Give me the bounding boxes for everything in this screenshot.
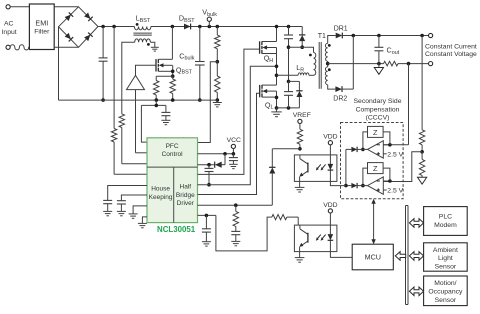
resistor VREF pullup [299, 124, 301, 130]
svg-text:AC: AC [4, 21, 14, 28]
resistor opto2 collector [272, 215, 287, 220]
bridge diode D3 (left-bottom edge) [64, 33, 73, 42]
wire opto2 cathode to MCU [330, 252, 352, 258]
wire QH gate drive [198, 49, 260, 174]
diode op-amp output [346, 185, 352, 187]
Motion Occupancy Sensor box [424, 276, 468, 306]
wire amp input from PFC control [135, 90, 137, 153]
wire QL gate drive [198, 93, 260, 194]
LBST core lines [133, 32, 151, 34]
arrow bus to motion sensor [409, 287, 423, 296]
opto light arrows [317, 164, 321, 168]
svg-text:Occupancy: Occupancy [428, 289, 463, 296]
optocoupler box [294, 155, 337, 182]
opto phototransistor [299, 155, 301, 159]
svg-text:2.5 V: 2.5 V [387, 188, 403, 195]
wire QH drain to bus [276, 27, 278, 42]
svg-text:EMI: EMI [35, 19, 48, 28]
Z feedback box [368, 126, 384, 137]
wire dim row routing [216, 215, 272, 251]
op-amp triangle [368, 141, 384, 158]
LBST phase dot primary [136, 23, 139, 26]
VCC terminal [231, 144, 235, 148]
svg-text:Secondary Side: Secondary Side [354, 98, 402, 105]
wire AC top to EMI [10, 6, 29, 8]
wire DR2 to positive rail [352, 36, 354, 90]
ground VCC [229, 163, 238, 165]
ground opto1 emitter [299, 181, 301, 187]
resistor Vbulk divider lower [216, 62, 218, 76]
capacitor row A filter [165, 105, 167, 112]
svg-text:VDD: VDD [323, 202, 337, 209]
svg-text:House: House [151, 186, 170, 193]
AC input terminal bottom [6, 45, 10, 49]
svg-text:2.5 V: 2.5 V [387, 151, 403, 158]
svg-text:DR1: DR1 [334, 26, 348, 33]
wire divider tap to voltage amp [383, 152, 422, 182]
resistor sense divider upper [111, 129, 116, 143]
inductor LR [277, 74, 299, 76]
T1 primary phase dot [309, 54, 312, 57]
ground pin H [138, 222, 147, 224]
capacitor resonant upper [287, 25, 291, 29]
T1 secondary phase dot lower [328, 68, 331, 71]
wire return rail [59, 99, 218, 101]
wire bridge pin to switch node [198, 66, 277, 184]
MCU box [352, 244, 393, 270]
ground opto2 emitter [299, 252, 301, 258]
wire divider tap to PFC Vbulk sense pin [198, 62, 218, 143]
svg-text:Z: Z [373, 164, 378, 173]
bridge diode D2 (top-right edge) [84, 12, 93, 21]
resistor QBST source right [172, 76, 174, 79]
capacitor pin E [103, 199, 112, 201]
wire rail tap to row A [155, 100, 157, 105]
optocoupler box [294, 225, 337, 252]
wire EMI to bridge top [54, 6, 78, 8]
diode DR1 [328, 36, 336, 44]
op-amp triangle [368, 177, 384, 194]
node output divider tap [420, 150, 424, 154]
T1 secondary winding upper [325, 43, 327, 61]
svg-text:MCU: MCU [365, 253, 381, 262]
diode op-amp output [346, 148, 352, 150]
resistor aux sense [119, 114, 124, 128]
wire DC bus middle segment [151, 26, 302, 28]
wire PFC pin row A [141, 105, 147, 142]
ground dim filter [202, 241, 211, 243]
svg-text:Sensor: Sensor [435, 263, 457, 270]
svg-text:Driver: Driver [177, 200, 195, 207]
inductor LBST primary winding [134, 27, 150, 30]
bridge diode D4 (bottom-right edge) [84, 33, 93, 42]
wire DC bus left segment [98, 26, 134, 28]
diode FB [271, 149, 273, 168]
Vbulk terminal [208, 25, 212, 29]
Ambient Light Sensor box [424, 243, 468, 271]
wire CCCV to MCU arrow [373, 202, 375, 241]
op-amp minus input stub [383, 180, 390, 182]
ground row A [161, 119, 170, 121]
AC input terminal top [6, 5, 10, 9]
transformer T1 core [318, 42, 320, 89]
ground half bridge [276, 108, 278, 112]
op-amp plus input stub [383, 189, 386, 191]
wire EMI to bridge bottom [54, 46, 78, 48]
PLC Modem box [424, 207, 468, 236]
output terminal positive [429, 33, 433, 37]
op-amp minus input stub [383, 144, 390, 146]
svg-text:Motion/: Motion/ [434, 280, 456, 287]
Z feedback box [368, 163, 384, 174]
svg-text:Z: Z [373, 128, 378, 137]
wire dim-control row [198, 214, 216, 216]
wire bottom clamp rail [277, 107, 300, 109]
wire aux winding left to PFC [122, 42, 135, 114]
opto LED [329, 155, 331, 164]
svg-text:Constant Voltage: Constant Voltage [425, 51, 477, 58]
wire cap node to T1 primary top [289, 47, 314, 52]
EMI Filter box [29, 4, 54, 50]
capacitor pin F [117, 200, 126, 202]
svg-text:VCC: VCC [227, 137, 241, 144]
svg-text:Control: Control [162, 151, 184, 158]
node Vbulk divider tap [216, 60, 220, 64]
arrow MCU to bus [395, 252, 405, 261]
IC NCL30051 outline [147, 138, 198, 223]
node FB compensation [234, 203, 238, 207]
wire pin housekeeping E [108, 186, 147, 201]
ground rail end [213, 102, 222, 104]
wire Z to output [363, 132, 368, 150]
svg-text:PFC: PFC [166, 143, 179, 150]
wire aux winding right to ground [150, 42, 154, 47]
resistor current shunt [384, 61, 398, 66]
wire QBST drain to bus [171, 27, 173, 60]
resistor output divider lower [421, 152, 423, 160]
ground output divider (signal) [418, 177, 427, 184]
transistor QBST [155, 59, 157, 71]
IC internal divider horizontal [147, 166, 198, 168]
bridge diode D1 (left-top edge) [64, 12, 73, 21]
capacitor FB compensation [231, 230, 240, 232]
resistor QBST source left [155, 76, 157, 80]
diode clamp upper [301, 27, 303, 35]
wire Z to minus input [383, 168, 390, 181]
opto light arrows [317, 235, 321, 239]
transistor QL [259, 85, 261, 97]
svg-text:(CCCV): (CCCV) [366, 115, 390, 122]
VDD terminal opto2 [328, 209, 332, 213]
svg-text:Ambient: Ambient [433, 247, 458, 254]
wire bus sense to PFC pin [112, 25, 116, 29]
ground pin G [129, 213, 138, 215]
svg-text:Keeping: Keeping [149, 194, 173, 201]
svg-text:Half: Half [180, 184, 192, 191]
wire VCC row [232, 148, 234, 153]
svg-text:Bridge: Bridge [176, 192, 195, 199]
wire feedback row [198, 204, 273, 206]
resistor Vbulk divider upper [216, 25, 220, 29]
LBST phase dot aux [147, 43, 150, 46]
resistor output divider upper [421, 36, 423, 130]
output terminal negative [429, 62, 433, 66]
node dim filter [205, 214, 209, 218]
arrow bus to PLC modem [409, 219, 423, 228]
op-amp plus input stub [383, 153, 386, 155]
wire QL source to ground [276, 91, 278, 108]
svg-text:Input: Input [2, 29, 17, 36]
capacitor Cout [378, 36, 380, 48]
amplifier driving QBST gate [127, 75, 145, 89]
IC internal divider vertical [173, 167, 175, 223]
svg-text:Sensor: Sensor [435, 297, 457, 304]
svg-text:DR2: DR2 [333, 96, 347, 103]
capacitor bootstrap [208, 165, 210, 169]
diode clamp lower [289, 80, 300, 82]
arrow bus to ambient sensor [409, 252, 423, 261]
wire output positive rail [342, 35, 428, 37]
wire diode-OR bus [345, 149, 347, 185]
capacitor dim filter [205, 215, 207, 228]
diode DBST [171, 25, 175, 29]
wire bridge negative to return rail [58, 27, 60, 100]
ground pin F [117, 210, 126, 212]
diode VCC charge [198, 164, 215, 166]
wire output return rail [328, 63, 384, 65]
capacitor Cbulk [198, 25, 202, 29]
svg-text:Compensation: Compensation [356, 107, 400, 114]
opto phototransistor [299, 225, 301, 229]
wire FB node row [272, 148, 300, 150]
wire QBST source/body node [172, 65, 174, 76]
svg-text:PLC: PLC [439, 214, 452, 221]
svg-text:Constant Current: Constant Current [425, 43, 477, 50]
svg-text:VDD: VDD [323, 134, 337, 141]
CCCV compensation dashed box [341, 123, 404, 199]
svg-text:T1: T1 [318, 33, 326, 40]
svg-text:Light: Light [438, 255, 453, 262]
svg-text:Modem: Modem [434, 222, 457, 229]
ground pin E [103, 210, 112, 212]
VREF terminal [298, 119, 302, 123]
AC source squiggle wire [10, 45, 29, 50]
wire amp output to QBST gate [136, 65, 157, 75]
capacitor after bridge [101, 25, 105, 29]
bridge rectifier diamond [59, 7, 99, 48]
capacitor resonant lower [287, 80, 291, 84]
wire switch node [276, 48, 278, 86]
ground FB compensation [231, 240, 240, 242]
transistor QH [259, 41, 261, 53]
wire pin G [133, 206, 147, 214]
node feedback [298, 147, 302, 151]
svg-text:Filter: Filter [34, 29, 50, 36]
wire pin housekeeping F [121, 195, 147, 201]
diode DR2 [328, 85, 336, 89]
T1 primary winding [314, 53, 316, 76]
svg-text:VREF: VREF [293, 112, 311, 119]
ground aux winding [151, 46, 159, 48]
T1 secondary winding lower [325, 67, 327, 85]
resistor FB compensation [235, 205, 237, 211]
wire Z to minus input [383, 132, 390, 145]
capacitor VCC decoupling [232, 154, 234, 158]
T1 secondary phase dot upper [328, 44, 331, 47]
ground Cout (signal) [378, 64, 380, 68]
inductor LBST aux winding [135, 39, 151, 42]
wire pin H [142, 217, 147, 224]
svg-text:NCL30051: NCL30051 [157, 225, 196, 234]
wire Z to output [363, 168, 368, 186]
wire current sense to current amp [408, 64, 410, 145]
opto LED [329, 225, 331, 234]
communication bus bar [405, 206, 407, 305]
VDD terminal opto1 [328, 141, 332, 145]
wire opto1 cathode to CCCV [330, 181, 346, 185]
wire T1 center tap [327, 61, 329, 67]
